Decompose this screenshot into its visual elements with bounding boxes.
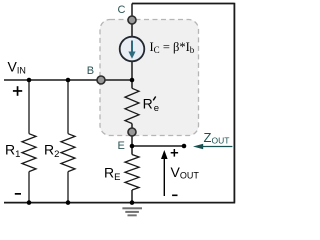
wire: RE bottom to ground rail [131, 190, 133, 203]
minus sign (output) [172, 195, 177, 197]
wire: node E down through output junction to RE [131, 132, 133, 155]
plus sign (input) [13, 86, 22, 96]
Zout arrow [193, 144, 232, 150]
label R'e [143, 96, 159, 114]
resistor R'e zigzag [125, 88, 139, 123]
wire: input top rail from Vin to node B and collector junction [4, 79, 132, 81]
junction dot R2 bottom [66, 200, 71, 205]
ground [122, 207, 142, 216]
node C [128, 16, 136, 24]
resistor R1 zigzag [22, 134, 36, 172]
wire: R1 bottom lead [28, 172, 30, 203]
terminal dot Vout top [182, 144, 187, 149]
wire: emitter output tap to Vout terminal [132, 145, 184, 147]
wire: R'e bottom to node E [131, 124, 133, 133]
wire: R2 bottom lead [67, 172, 69, 203]
wire: C riser from top rail to current source [131, 4, 133, 38]
wire: current source bottom to base junction [131, 61, 133, 80]
junction dot RE bottom / ground [130, 200, 135, 205]
plus sign (output) [171, 149, 178, 157]
transistor model enclosure (dashed box) [100, 20, 199, 136]
svg-text:E: E [118, 140, 125, 152]
wire: R2 branch [67, 80, 69, 134]
Vout arrow [161, 150, 168, 196]
junction dot emitter tap [130, 144, 135, 149]
svg-text:R: R [143, 96, 153, 112]
resistor RE zigzag [125, 155, 139, 191]
wire: outer loop (top, right side, bottom ground rail) [4, 3, 235, 203]
resistor R2 zigzag [61, 134, 75, 172]
junction dot R2 top [66, 78, 71, 83]
wire: base junction down to R'e [131, 80, 133, 88]
svg-text:e: e [154, 103, 159, 114]
wire: R1 branch [28, 80, 30, 134]
svg-text:C: C [118, 4, 126, 16]
svg-text:B: B [87, 65, 94, 77]
junction dot base-collector column [130, 78, 135, 83]
minus sign (input) [15, 193, 21, 195]
node E [128, 128, 136, 136]
node B [97, 76, 105, 84]
junction dot R1 top [27, 78, 32, 83]
current source U1 (Ic = B*Ib) [120, 37, 145, 62]
junction dot R1 bottom [27, 200, 32, 205]
